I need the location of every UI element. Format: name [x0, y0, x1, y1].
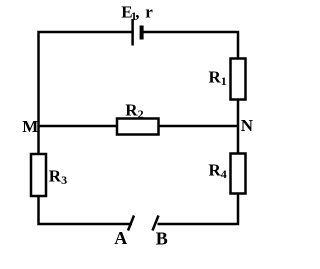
- wire left bottom (R3 to bottom rail): [39, 196, 133, 224]
- wire right bottom (R4 to bottom rail): [158, 194, 239, 225]
- svg-text:R2: R2: [125, 100, 143, 121]
- svg-text:M: M: [22, 117, 38, 136]
- wire top right (battery right lead): [143, 32, 238, 59]
- svg-text:R4: R4: [209, 161, 227, 182]
- wire middle left (M to R2): [39, 125, 118, 128]
- wire right between R1 and node N: [237, 100, 240, 127]
- svg-text:B: B: [156, 229, 168, 249]
- wire right between N and R4: [237, 126, 240, 154]
- terminal B tick: [153, 216, 159, 231]
- svg-text:A: A: [114, 228, 127, 248]
- terminal A tick: [128, 216, 134, 231]
- svg-text:N: N: [241, 116, 254, 135]
- resistor R2: [117, 119, 159, 135]
- resistor R1: [231, 59, 246, 100]
- resistor R3: [31, 154, 46, 196]
- resistor R4: [231, 154, 246, 194]
- battery E1 long plate: [131, 19, 134, 46]
- wire left between node M and R3: [37, 126, 40, 154]
- svg-text:R3: R3: [49, 167, 67, 188]
- wire middle right (R2 to N): [159, 125, 239, 128]
- svg-text:E1,r: E1,r: [121, 2, 153, 23]
- svg-text:R1: R1: [209, 67, 227, 88]
- battery E1 short plate: [140, 26, 144, 40]
- wire top left (battery left lead): [39, 32, 132, 126]
